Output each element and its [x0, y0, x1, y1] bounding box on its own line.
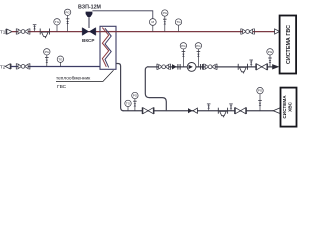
svg-text:ГВС: ГВС: [57, 84, 67, 90]
wire: T2 return pipe: [11, 66, 100, 68]
wire: T1 supply pipe: [12, 31, 100, 33]
heat exchanger body: [100, 26, 116, 69]
label теплообменник ГВС with leader: [56, 70, 114, 90]
wire: circulation pipe: [147, 66, 275, 68]
flow meter on circulation: [157, 64, 171, 69]
flow meter on T1: [16, 29, 30, 34]
svg-text:ХВС: ХВС: [288, 102, 293, 112]
flanged valve on circulation: [256, 64, 268, 71]
svg-text:СИСТЕМА: СИСТЕМА: [282, 95, 287, 119]
svg-text:ВКСР: ВКСР: [82, 38, 94, 43]
sensor of regulator on GVS supply: [149, 19, 156, 32]
blue coil in exchanger: [105, 28, 111, 67]
flow meter on circulation 2: [203, 64, 217, 69]
svg-text:Т2: Т2: [0, 64, 6, 69]
wire: GVS supply from exchanger to box: [116, 31, 275, 33]
manometer PG with tap on T2: [44, 49, 50, 67]
arrow from XVS box: [273, 108, 280, 114]
svg-text:Т1: Т1: [0, 30, 6, 35]
wire: circulation riser with jog: [145, 67, 166, 111]
flow direction arrow on circulation: [172, 64, 177, 69]
flange pair after pump: [201, 64, 203, 70]
tap on T1: [33, 25, 37, 32]
manometer PG with tap on circulation end: [267, 49, 273, 67]
arrow into GVS box (circulation): [272, 64, 279, 69]
strainer on circulation: [238, 64, 247, 74]
actuator of regulator valve: [86, 12, 93, 28]
red coil in exchanger: [102, 28, 108, 67]
wire: cold water bottom pipe: [123, 110, 274, 112]
manometer PG with tap on cold pipe: [132, 92, 138, 110]
svg-text:СИСТЕМА ГВС: СИСТЕМА ГВС: [286, 25, 292, 64]
wire: secondary outlet from exchanger down: [116, 64, 124, 111]
flanged valve on cold pipe 2: [235, 107, 247, 114]
flow meter on T2: [16, 64, 30, 69]
regulating valve VKSR (black): [82, 28, 95, 36]
flange pair on circulation: [178, 64, 180, 70]
thermometer TG on T2: [57, 56, 63, 66]
thermometer TG on GVS supply: [175, 19, 181, 32]
tap on cold pipe 2: [229, 104, 233, 111]
circulation pump: [187, 63, 196, 72]
thermometer TG on cold pipe: [125, 100, 131, 110]
control impulse line from actuator: [92, 11, 152, 19]
strainer on T1: [40, 29, 49, 39]
thermometer TG on T1: [54, 19, 60, 32]
strainer on cold pipe: [218, 108, 227, 118]
flow meter on GVS supply: [241, 29, 255, 34]
check valve on cold pipe: [188, 108, 197, 113]
manometer PG with tap before pump: [180, 43, 186, 67]
T2 outlet arrow: [5, 64, 11, 69]
manometer PG with tap on GVS supply: [162, 10, 168, 32]
svg-text:ВЗП-12М: ВЗП-12М: [78, 5, 102, 11]
flanged valve on cold pipe: [142, 107, 154, 114]
tap on cold pipe: [207, 104, 211, 111]
wire: red pipe through exchanger: [100, 31, 116, 33]
GVS system box: [280, 16, 297, 74]
manometer PG with tap after pump: [195, 43, 201, 67]
tap on circulation: [249, 60, 253, 67]
XVS system box: [281, 88, 297, 127]
T1 inlet arrow: [6, 29, 12, 34]
arrow into GVS system box: [275, 29, 280, 34]
manometer PG with tap on T1: [64, 9, 70, 31]
manometer PG with tap on cold pipe 2: [257, 87, 263, 110]
svg-text:теплообменник: теплообменник: [56, 76, 91, 82]
